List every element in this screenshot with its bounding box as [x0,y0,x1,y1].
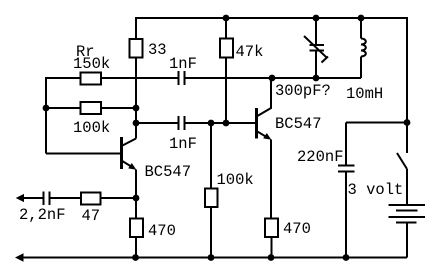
svg-text:100k: 100k [73,119,110,137]
svg-text:2,2nF: 2,2nF [19,206,66,224]
svg-text:47k: 47k [236,43,264,61]
svg-text:33: 33 [148,41,167,59]
svg-text:BC547: BC547 [145,163,192,181]
svg-text:470: 470 [148,222,176,240]
svg-text:100k: 100k [217,171,254,189]
svg-text:1nF: 1nF [169,55,197,73]
svg-text:220nF: 220nF [297,148,344,166]
svg-text:10mH: 10mH [346,85,383,103]
svg-text:1nF: 1nF [169,135,197,153]
svg-text:470: 470 [283,220,311,238]
svg-text:150k: 150k [73,55,110,73]
svg-text:BC547: BC547 [275,115,322,133]
svg-text:300pF?: 300pF? [275,82,331,100]
svg-text:47: 47 [82,207,101,225]
svg-text:3 volt: 3 volt [348,181,404,199]
